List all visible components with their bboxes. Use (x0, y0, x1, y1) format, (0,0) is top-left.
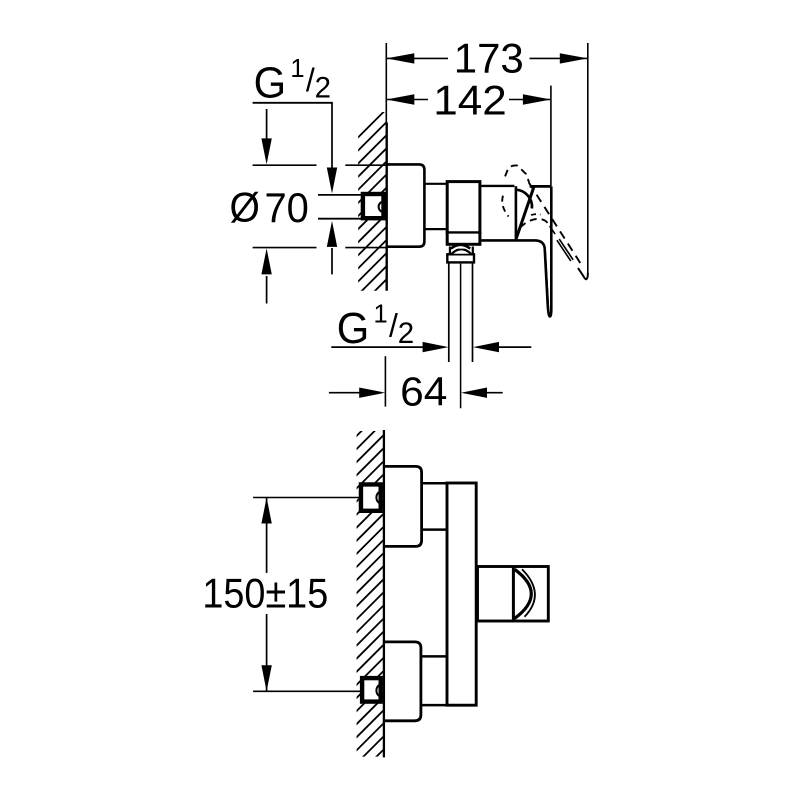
dimension 64 (329, 369, 503, 415)
arrow up to union thread bottom (G1/2) (327, 221, 337, 275)
extension line left (wall, dims 173/142) (385, 43, 387, 122)
arrow down to escutcheon top (dia 70) (261, 109, 271, 164)
svg-text:2: 2 (315, 72, 331, 105)
dimension 150±15 (202, 498, 328, 692)
wall union square (top view) (363, 194, 384, 218)
wall line (top view) (386, 122, 388, 290)
svg-text:1: 1 (374, 301, 388, 329)
body (bottom view) (447, 483, 476, 705)
dimension 142 (386, 77, 551, 124)
handle dashed knob (alternate position) (505, 165, 529, 182)
handle dashed lever edge B (double) (550, 226, 574, 261)
handle (bottom view) (478, 566, 549, 622)
handle pivot arc (515, 190, 532, 209)
svg-text:150±15: 150±15 (202, 571, 328, 617)
shower hose lines (449, 263, 473, 409)
rear body (top view) (481, 186, 516, 239)
cartridge block (top view) (446, 182, 482, 245)
handle dashed lever tip hook (578, 268, 588, 279)
extension line upper union (253, 497, 359, 499)
svg-text:142: 142 (433, 77, 507, 124)
label dia 70 (230, 183, 309, 231)
svg-text:70: 70 (265, 184, 309, 231)
lower neck (bottom view) (422, 656, 447, 705)
lower union escutcheon (bottom view) (383, 642, 421, 721)
escutcheon (top view) (386, 164, 425, 246)
wall hatching (bottom view) (351, 405, 388, 796)
handle lever solid (top view) (481, 186, 551, 316)
upper union escutcheon (bottom view) (383, 466, 422, 546)
svg-text:1: 1 (290, 55, 304, 83)
wall line (bottom view) (383, 430, 385, 757)
upper neck (bottom view) (422, 483, 447, 529)
svg-text:G: G (337, 304, 370, 353)
union pipe lines (top view) (318, 195, 361, 219)
extension line right (dim 173) (587, 43, 589, 273)
lower union square (362, 678, 383, 702)
handle dashed arc left (502, 196, 508, 217)
svg-text:173: 173 (454, 35, 524, 82)
outlet dome arc 2 (452, 249, 471, 254)
handle dashed lever edge A (529, 183, 584, 268)
svg-text:64: 64 (400, 369, 447, 415)
svg-text:2: 2 (398, 317, 414, 350)
handle pivot diagonal (516, 187, 534, 239)
outlet dome arc 1 (451, 245, 470, 249)
outlet collar sides (450, 247, 473, 255)
wall extension line (dim 64) (384, 356, 386, 406)
svg-text:G: G (254, 59, 287, 108)
extension line right (dim 142) (550, 86, 552, 187)
dimension 173 (386, 35, 588, 82)
extension line escutcheon top (253, 164, 386, 166)
svg-text:/: / (389, 308, 398, 344)
label G 1/2 (lower) (337, 301, 414, 354)
outlet nut (447, 254, 474, 262)
upper union square (361, 484, 383, 510)
wall hatching (top view) (353, 106, 390, 326)
arrow up to escutcheon bottom (dia 70) (261, 248, 271, 303)
arrow down to union thread (G1/2) (327, 168, 337, 194)
neck (top view) (424, 184, 447, 229)
extension line lower union (253, 690, 360, 692)
svg-text:Ø: Ø (230, 183, 260, 231)
handle dashed curve under (520, 214, 548, 227)
svg-text:/: / (306, 62, 315, 98)
dimension G 1/2 hose (331, 342, 531, 352)
extension line escutcheon bottom (253, 247, 386, 249)
leader line under G 1/2 (253, 103, 333, 170)
label G 1/2 (upper left) (254, 55, 331, 108)
